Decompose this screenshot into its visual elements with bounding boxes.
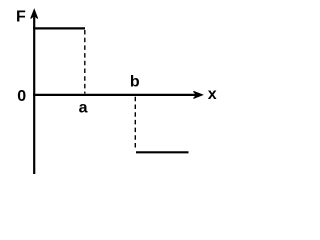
svg-text:F: F bbox=[16, 9, 26, 26]
svg-text:0: 0 bbox=[17, 88, 26, 105]
svg-text:a: a bbox=[79, 100, 88, 117]
F axis (vertical) bbox=[33, 13, 35, 174]
negative F segment from b rightwards bbox=[136, 151, 189, 153]
svg-text:b: b bbox=[130, 74, 140, 91]
F axis arrowhead bbox=[31, 10, 38, 19]
svg-text:x: x bbox=[208, 86, 217, 103]
x axis arrowhead bbox=[194, 91, 203, 98]
dashed dropline at a bbox=[84, 30, 86, 94]
x axis (horizontal) bbox=[33, 94, 197, 96]
positive F segment from axis to a bbox=[33, 27, 85, 29]
dashed dropline at b bbox=[134, 97, 136, 151]
